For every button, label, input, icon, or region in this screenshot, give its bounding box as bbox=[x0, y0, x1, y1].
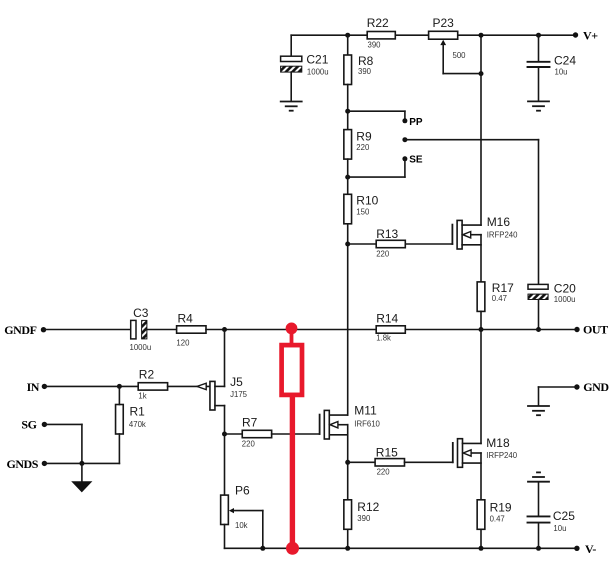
wire top rail down to C24 bbox=[538, 35, 540, 61]
wire R1 top link bbox=[118, 386, 120, 404]
svg-text:GNDF: GNDF bbox=[4, 323, 36, 337]
wire C25 to bottom rail bbox=[538, 524, 540, 549]
resistor R1 bbox=[116, 404, 146, 434]
wire R8 to PP junction and R9 bbox=[347, 85, 349, 130]
node SE bbox=[402, 155, 422, 166]
wire C20 tap to right bbox=[405, 139, 539, 141]
wire R15 to M18 gate bbox=[405, 461, 453, 463]
potentiometer P23 bbox=[429, 16, 467, 74]
svg-text:390: 390 bbox=[358, 67, 372, 76]
wire GNDF to C3 bbox=[44, 329, 131, 331]
junction P6 wiper / rail bbox=[260, 546, 265, 551]
capacitor C21 bbox=[281, 53, 329, 77]
svg-text:IRFP240: IRFP240 bbox=[487, 230, 518, 239]
svg-text:120: 120 bbox=[176, 338, 190, 347]
junction R17 / OUT rail bbox=[479, 327, 484, 332]
resistor R8 bbox=[344, 54, 374, 85]
resistor R17 bbox=[477, 281, 514, 312]
wire IN to R2 bbox=[44, 385, 138, 387]
svg-text:SG: SG bbox=[21, 418, 36, 432]
junction J5 source / R7 bbox=[222, 432, 227, 437]
svg-text:IRF610: IRF610 bbox=[354, 420, 380, 429]
ground triangle (signal ground) bbox=[71, 481, 92, 492]
svg-text:P6: P6 bbox=[235, 484, 250, 498]
ground above C25 (inverted) bbox=[528, 472, 549, 481]
junction IN / R1 bbox=[117, 384, 122, 389]
ground under C21 bbox=[281, 102, 302, 111]
wire node to R7 bbox=[225, 433, 243, 435]
terminal V- bbox=[574, 542, 596, 556]
svg-text:M11: M11 bbox=[354, 404, 377, 418]
svg-text:OUT: OUT bbox=[583, 323, 608, 337]
junction R15 bbox=[345, 460, 350, 465]
wire R12 to bottom rail bbox=[347, 529, 349, 548]
svg-text:220: 220 bbox=[356, 143, 370, 152]
terminal GNDS bbox=[6, 457, 47, 471]
svg-text:PP: PP bbox=[409, 117, 423, 128]
wire C20 feed down bbox=[538, 140, 540, 285]
wire C21 up to top rail bbox=[290, 35, 292, 56]
svg-text:0.47: 0.47 bbox=[492, 294, 507, 303]
capacitor C3 bbox=[130, 306, 152, 352]
wire M11 source down to R12 bbox=[347, 425, 349, 500]
wire OUT rail down to M18 drain bbox=[480, 330, 482, 444]
wire rail to R13 bbox=[348, 243, 377, 245]
wire ground to C25 bbox=[538, 483, 540, 516]
transistor M18 (IRFP240) bbox=[453, 436, 518, 467]
svg-text:220: 220 bbox=[377, 467, 391, 476]
svg-text:C3: C3 bbox=[133, 306, 149, 320]
wire R4 to R14 (through node and red marker) bbox=[206, 329, 376, 331]
wire bottom rail bbox=[225, 547, 578, 549]
svg-text:P23: P23 bbox=[433, 16, 455, 30]
svg-text:R8: R8 bbox=[358, 54, 374, 68]
svg-text:150: 150 bbox=[356, 208, 370, 217]
resistor R14 bbox=[376, 312, 405, 343]
resistor R22 bbox=[367, 16, 396, 50]
node A red circle on GNDF rail bbox=[286, 323, 298, 335]
wire R14 to OUT terminal bbox=[405, 329, 577, 331]
wire P6 bottom to rail bbox=[224, 525, 226, 549]
svg-text:1000u: 1000u bbox=[130, 343, 152, 352]
node C20 tap dot bbox=[402, 137, 407, 142]
wire to R15 bbox=[348, 461, 375, 463]
wire C20 down to OUT rail bbox=[538, 300, 540, 330]
svg-text:C25: C25 bbox=[553, 509, 575, 523]
wire middle rail R10 down to M11 drain bbox=[347, 224, 349, 415]
wire R2 to J5 gate bbox=[168, 385, 210, 387]
wire R1 bottom link bbox=[118, 434, 120, 463]
wire PP stub down bbox=[404, 111, 406, 121]
svg-text:R7: R7 bbox=[242, 415, 258, 429]
resistor R7 bbox=[242, 415, 272, 448]
wire SE stub down bbox=[404, 159, 406, 177]
svg-text:GNDS: GNDS bbox=[6, 457, 38, 471]
svg-text:R10: R10 bbox=[356, 194, 378, 208]
node PP bbox=[402, 117, 422, 128]
wire right rail top to M16 drain bbox=[480, 35, 482, 225]
capacitor C24 bbox=[528, 54, 577, 77]
terminal IN bbox=[27, 380, 48, 394]
svg-text:IRFP240: IRFP240 bbox=[486, 451, 517, 460]
svg-text:IN: IN bbox=[27, 380, 40, 394]
potentiometer P6 bbox=[221, 484, 263, 531]
svg-text:220: 220 bbox=[242, 439, 256, 448]
transistor J5 (J175) bbox=[197, 375, 248, 410]
transistor M16 (IRFP240) bbox=[452, 215, 518, 249]
svg-text:1.8k: 1.8k bbox=[376, 334, 391, 343]
svg-text:10k: 10k bbox=[235, 521, 248, 530]
svg-text:10u: 10u bbox=[555, 67, 568, 76]
junction C25 / rail bbox=[536, 546, 541, 551]
svg-text:R1: R1 bbox=[130, 404, 146, 418]
svg-text:R22: R22 bbox=[367, 16, 389, 30]
svg-text:1000u: 1000u bbox=[554, 295, 576, 304]
wire PP stub horizontal bbox=[348, 110, 405, 112]
junction PP stub bbox=[345, 109, 350, 114]
node B red dot on bottom rail bbox=[286, 542, 299, 555]
junction SE stub bbox=[345, 175, 350, 180]
transistor M11 (IRF610) bbox=[320, 404, 381, 439]
terminal GNDF bbox=[4, 323, 46, 337]
junction R12 / rail bbox=[345, 546, 350, 551]
resistor R19 bbox=[477, 500, 512, 530]
resistor R9 bbox=[344, 130, 372, 160]
wire P6 wiper down bbox=[262, 511, 264, 549]
junction R19 / rail bbox=[479, 546, 484, 551]
svg-text:V+: V+ bbox=[583, 29, 598, 43]
wire M16 source down to R17 bbox=[480, 235, 482, 282]
wire C3 to R4 bbox=[147, 329, 177, 331]
svg-text:M16: M16 bbox=[487, 215, 511, 229]
wire M18 source down to R19 bbox=[480, 453, 482, 500]
ground under C24 bbox=[528, 101, 549, 110]
svg-text:10u: 10u bbox=[553, 524, 566, 533]
svg-text:M18: M18 bbox=[486, 436, 510, 450]
svg-text:V-: V- bbox=[585, 542, 596, 556]
junction P23 wiper / right rail bbox=[479, 71, 484, 76]
svg-text:390: 390 bbox=[357, 514, 371, 523]
wire GND down bbox=[538, 387, 540, 405]
wire GND left bbox=[539, 386, 577, 388]
junction top rail / R8 bbox=[345, 33, 350, 38]
resistor R4 bbox=[176, 311, 206, 347]
wire SG right bbox=[44, 423, 82, 425]
wire red stem top bbox=[290, 330, 294, 345]
svg-text:1k: 1k bbox=[138, 392, 146, 401]
wire C21 down to ground bbox=[290, 72, 292, 101]
svg-text:C24: C24 bbox=[554, 54, 576, 68]
wire J5 drain up to R4 node bbox=[224, 330, 226, 387]
wire R17 to OUT rail bbox=[480, 311, 482, 329]
svg-text:R19: R19 bbox=[490, 501, 512, 515]
wire P23 wiper to right rail bbox=[443, 73, 481, 75]
svg-text:R2: R2 bbox=[139, 368, 155, 382]
resistor R13 bbox=[376, 227, 405, 258]
svg-text:R13: R13 bbox=[376, 227, 398, 241]
wire R13 to M16 gate bbox=[405, 243, 452, 245]
svg-text:0.47: 0.47 bbox=[490, 515, 505, 524]
red annotation highlight bbox=[282, 323, 302, 555]
svg-text:GND: GND bbox=[583, 380, 609, 394]
junction right rail top bbox=[479, 33, 484, 38]
resistor R12 bbox=[344, 500, 380, 530]
svg-text:220: 220 bbox=[376, 250, 390, 259]
terminal GND bbox=[574, 380, 609, 394]
wire C24 down to ground bbox=[538, 68, 540, 101]
wire R9 to R10 bbox=[347, 159, 349, 194]
svg-text:R17: R17 bbox=[492, 281, 514, 295]
resistor R2 bbox=[138, 368, 167, 401]
junction SG/GNDS bbox=[79, 461, 84, 466]
terminal V+ bbox=[573, 29, 598, 43]
svg-text:500: 500 bbox=[453, 51, 467, 60]
resistor R15 bbox=[375, 445, 404, 476]
wire J5 source down to P6 bbox=[224, 406, 226, 496]
wire ground stem bbox=[81, 463, 83, 481]
svg-text:C20: C20 bbox=[554, 282, 576, 296]
svg-text:470k: 470k bbox=[129, 420, 146, 429]
svg-text:C21: C21 bbox=[306, 53, 328, 67]
junction R13 bbox=[345, 242, 350, 247]
capacitor C20 bbox=[528, 282, 576, 305]
junction C20 / OUT rail bbox=[536, 327, 541, 332]
wire R19 to bottom rail bbox=[480, 529, 482, 548]
svg-text:R12: R12 bbox=[357, 500, 379, 514]
terminal SG bbox=[21, 418, 47, 432]
resistor highlighted (red) bbox=[282, 345, 302, 395]
svg-text:R15: R15 bbox=[376, 445, 398, 459]
terminal OUT bbox=[574, 323, 608, 337]
svg-text:J175: J175 bbox=[230, 390, 248, 399]
capacitor C25 bbox=[528, 509, 576, 533]
junction R4 / J5 drain node bbox=[222, 327, 227, 332]
svg-text:R4: R4 bbox=[178, 311, 194, 325]
svg-text:R14: R14 bbox=[376, 312, 398, 326]
wire V+ top rail left segment bbox=[291, 34, 367, 36]
svg-text:R9: R9 bbox=[356, 130, 372, 144]
wire top rail to R8 bbox=[347, 35, 349, 55]
wire SG down bbox=[81, 424, 83, 463]
wire top rail between R22 and P23 bbox=[395, 34, 428, 36]
wire red vertical down bbox=[290, 397, 295, 549]
svg-text:1000u: 1000u bbox=[307, 67, 329, 76]
wire SE stub horizontal bbox=[348, 176, 405, 178]
junction C24 top rail bbox=[536, 33, 541, 38]
svg-text:SE: SE bbox=[409, 155, 423, 166]
wire GNDS to R1 column bbox=[44, 462, 119, 464]
svg-text:J5: J5 bbox=[230, 375, 243, 389]
ground at GND terminal bbox=[528, 406, 549, 415]
resistor R10 bbox=[344, 194, 379, 224]
wire R7 to M11 gate bbox=[272, 433, 320, 435]
svg-text:390: 390 bbox=[368, 41, 382, 50]
wire top rail from P23 to V+ terminal bbox=[458, 34, 576, 36]
